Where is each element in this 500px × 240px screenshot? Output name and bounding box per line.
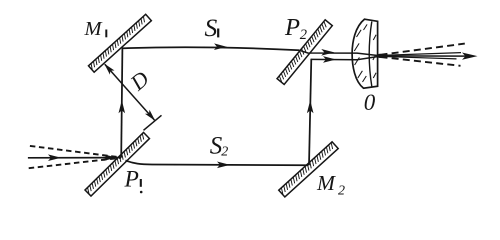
label M1: [84, 18, 107, 40]
wire: output diverging solid (upper): [380, 53, 461, 56]
svg-text:2: 2: [338, 183, 345, 198]
label S1: [205, 13, 219, 42]
wire: beam S1 (M1 to P2): [122, 43, 299, 50]
svg-text:2: 2: [300, 27, 307, 43]
input ray (upper dashed): [30, 146, 121, 158]
label D: [125, 66, 154, 96]
wire: vertical beam P1 to M1: [119, 48, 126, 157]
svg-text:P: P: [284, 14, 300, 41]
beam splitter P1: [85, 132, 149, 196]
dimension arrow D (M1 to P1 plane): [104, 64, 155, 121]
label P1: [124, 166, 143, 193]
svg-text:M: M: [84, 18, 104, 40]
svg-text:P: P: [124, 166, 139, 192]
svg-text:M: M: [316, 171, 336, 195]
beam splitter P2: [277, 20, 332, 85]
label O: [364, 90, 376, 115]
wire: output beam 1 from P2 through lens to focus: [299, 49, 379, 56]
extension line of P1 plane: [144, 115, 162, 130]
wire: output beam 2 from P2 through lens to focus: [311, 56, 380, 63]
svg-text:2: 2: [221, 144, 228, 159]
input ray (solid, source beam): [28, 154, 121, 161]
label M2: [316, 171, 345, 198]
wire: beam S2 (P1 to M2): [126, 160, 309, 168]
wire: output dashed (upper): [381, 44, 465, 55]
wire: output axis arrow: [379, 53, 478, 60]
wire: output diverging solid (lower): [380, 56, 457, 59]
wire: vertical beam M2 to P2: [307, 59, 314, 165]
wire: output dashed (lower): [381, 57, 461, 66]
label S2: [210, 132, 228, 159]
input ray (lower dashed): [29, 158, 121, 168]
lens O (objective): [352, 19, 378, 88]
focus point: [377, 54, 382, 58]
svg-text:0: 0: [364, 90, 376, 115]
mirror M2: [279, 142, 338, 197]
svg-text:S: S: [205, 13, 218, 42]
label P2: [284, 14, 307, 43]
mirror M1: [88, 14, 151, 72]
